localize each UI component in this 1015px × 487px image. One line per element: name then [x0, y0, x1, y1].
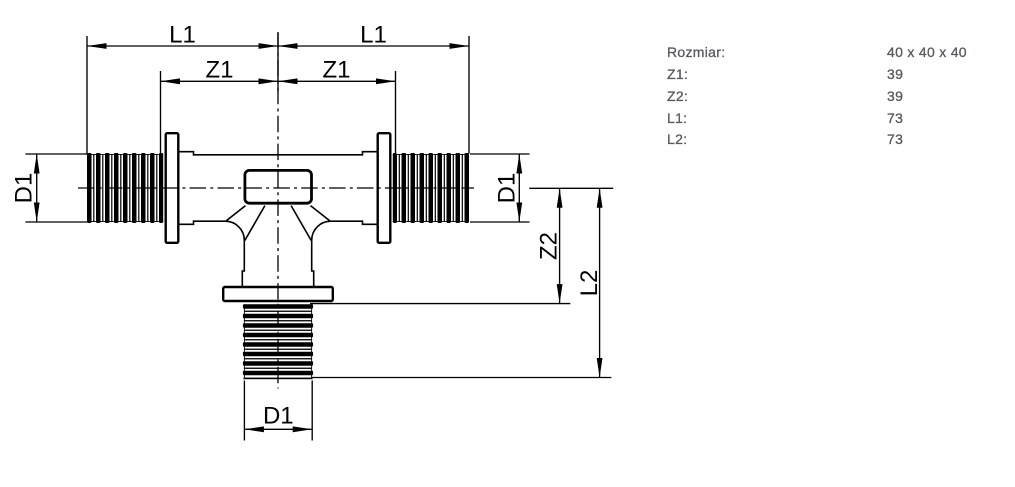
boss fan line B	[245, 206, 265, 241]
left flange	[166, 133, 179, 243]
center boss	[245, 170, 312, 203]
svg-text:L2: L2	[576, 270, 603, 297]
dimension D1 left	[11, 154, 88, 222]
left fillet arm-to-branch	[225, 221, 244, 286]
dimension L1 right	[278, 22, 469, 154]
boss fan line D	[311, 206, 331, 222]
dimension L1 left	[87, 22, 278, 154]
svg-text:Z1: Z1	[205, 57, 233, 84]
svg-text:Z2: Z2	[536, 232, 563, 260]
svg-text:L1: L1	[360, 22, 387, 49]
right collar and tube edges	[278, 152, 377, 225]
boss fan line A	[226, 206, 246, 222]
left barbed end ribs	[87, 153, 163, 223]
svg-text:Z1: Z1	[322, 57, 350, 84]
dimension Z2	[310, 188, 613, 303]
bottom flange	[223, 287, 333, 301]
dimension Z1 right	[278, 57, 396, 155]
dimension D1 bottom	[244, 381, 312, 441]
dimension L2	[311, 188, 611, 377]
svg-text:D1: D1	[263, 403, 294, 430]
right barbed end ribs	[393, 153, 469, 223]
center extension line (solid, through L1/Z1 dims)	[277, 33, 279, 91]
boss fan line C	[291, 206, 311, 241]
horizontal centerline of tee arms	[78, 187, 474, 189]
svg-text:L1: L1	[169, 22, 196, 49]
left collar and tube edges	[180, 152, 279, 225]
right fillet arm-to-branch	[312, 221, 331, 286]
svg-text:D1: D1	[494, 173, 521, 204]
right flange	[378, 133, 391, 243]
specification table	[667, 45, 725, 59]
svg-text:D1: D1	[11, 173, 38, 204]
dimension D1 right	[470, 154, 530, 222]
vertical centerline of branch	[277, 32, 279, 389]
dimension Z1 left	[161, 57, 279, 155]
bottom barbed end ribs	[243, 304, 313, 379]
